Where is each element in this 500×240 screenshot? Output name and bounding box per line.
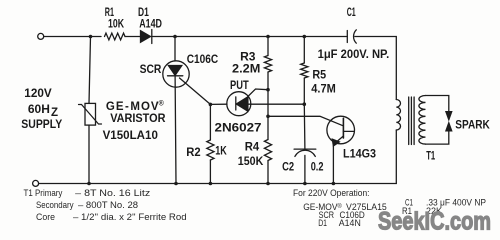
wire node to C2 — [303, 104, 306, 149]
wire SCR cathode lead — [174, 76, 177, 184]
svg-text:0.2: 0.2 — [311, 162, 324, 174]
wire C1 to corner — [355, 37, 397, 100]
node: SCR anode junction — [173, 35, 177, 39]
resistor R4 — [264, 140, 271, 161]
svg-text:1μF 200V. NP.: 1μF 200V. NP. — [318, 49, 390, 61]
node: L14G3 emitter bottom junction — [332, 182, 336, 186]
wire R5 top lead — [303, 37, 305, 64]
svg-text:Secondary: Secondary — [36, 200, 74, 210]
svg-text:120V: 120V — [24, 88, 52, 100]
node: R3 top junction — [266, 35, 270, 39]
svg-text:Z: Z — [51, 107, 58, 119]
svg-text:R5: R5 — [312, 70, 326, 82]
svg-text:SCR: SCR — [140, 64, 162, 76]
resistor R2 — [207, 140, 214, 160]
svg-text:For 220V Operation:: For 220V Operation: — [293, 188, 370, 198]
svg-text:R2: R2 — [186, 147, 200, 159]
resistor R5 — [301, 63, 308, 78]
svg-text:– 1/2'' dia. x 2'' Ferrite Rod: – 1/2'' dia. x 2'' Ferrite Rod — [73, 212, 187, 222]
wire PUT left lead — [210, 103, 227, 105]
svg-text:– 800T No. 28: – 800T No. 28 — [78, 200, 138, 210]
node: SCR gate / R2 / PUT junction — [209, 103, 213, 107]
node: C2 bottom junction — [303, 182, 307, 186]
svg-text:V150LA10: V150LA10 — [103, 130, 158, 142]
wire R3 top lead — [267, 37, 269, 56]
wire secondary top lead — [426, 96, 449, 113]
resistor R1 — [105, 33, 126, 40]
wire R1 to D1 — [125, 36, 141, 38]
svg-text:Core: Core — [36, 212, 55, 222]
wire R5 to anode node — [303, 78, 305, 104]
svg-text:GE-MOV®: GE-MOV® — [106, 100, 165, 114]
wire top rail left — [44, 36, 101, 38]
node: R5/C1 top junction — [303, 35, 307, 39]
capacitor C2 — [294, 148, 316, 150]
wire base line — [268, 116, 343, 126]
wire R3 bottom / node column — [267, 72, 269, 140]
wire varistor top lead — [89, 37, 91, 104]
wire R4 bottom lead — [267, 161, 269, 184]
svg-text:4.7M: 4.7M — [311, 83, 336, 95]
wire PUT gate — [248, 89, 268, 97]
svg-text:2.2M: 2.2M — [232, 63, 260, 75]
transformer core — [408, 97, 410, 145]
wire emitter lead — [332, 146, 334, 184]
transistor L14G3 — [327, 116, 355, 144]
spark gap upper arrow — [446, 112, 452, 120]
svg-text:L14G3: L14G3 — [343, 148, 376, 160]
terminal top-left — [38, 33, 44, 39]
svg-text:10K: 10K — [108, 18, 125, 30]
svg-text:PUT: PUT — [230, 80, 249, 92]
wire C2 bottom lead — [304, 155, 306, 183]
wire PUT anode lead — [248, 103, 304, 105]
PUT 2N6027 — [227, 92, 251, 116]
node: base line junction — [266, 115, 270, 119]
svg-text:T1: T1 — [426, 150, 435, 162]
node: varistor bottom junction — [87, 182, 91, 186]
wire SCR gate — [180, 78, 211, 104]
svg-text:D1: D1 — [318, 218, 327, 228]
svg-text:A14D: A14D — [139, 18, 162, 30]
svg-text:150K: 150K — [238, 156, 264, 168]
svg-text:60H: 60H — [28, 104, 50, 116]
svg-text:C1: C1 — [347, 7, 356, 19]
spark gap lower arrow — [446, 123, 452, 131]
node: R4 bottom junction — [266, 182, 270, 186]
wire R2 bottom lead — [209, 160, 211, 184]
resistor R3 — [264, 56, 271, 73]
node: SCR cathode bottom junction — [174, 182, 178, 186]
svg-text:1K: 1K — [215, 146, 227, 158]
svg-text:R4: R4 — [245, 142, 260, 154]
svg-text:SeekIC.com: SeekIC.com — [378, 208, 491, 236]
svg-text:A14N: A14N — [339, 218, 361, 228]
node: R3/PUT gate junction — [266, 88, 270, 92]
svg-text:SPARK: SPARK — [455, 120, 490, 132]
transformer T1 primary — [396, 100, 400, 130]
svg-text:R3: R3 — [240, 51, 255, 63]
wire R2 top lead — [209, 104, 211, 140]
terminal bottom-left — [33, 180, 39, 186]
node: PUT anode / R5 junction — [303, 102, 307, 106]
transformer T1 secondary — [419, 96, 426, 145]
wire SCR anode lead — [174, 37, 176, 62]
SCR C106C — [163, 61, 189, 87]
svg-text:T1 Primary: T1 Primary — [24, 188, 63, 198]
wire bottom rail — [39, 183, 397, 185]
svg-text:C106C: C106C — [187, 54, 219, 66]
varistor V150LA10 body — [85, 103, 96, 125]
svg-text:C2: C2 — [282, 162, 294, 174]
wire primary bottom to rail — [395, 130, 397, 184]
diode D1 — [141, 31, 151, 43]
wire varistor bottom lead — [88, 125, 90, 183]
svg-text:– 8T No. 16 Litz: – 8T No. 16 Litz — [75, 188, 151, 198]
wire secondary bottom lead — [426, 131, 449, 145]
capacitor C1 — [346, 31, 348, 43]
node: R2 bottom junction — [209, 182, 213, 186]
svg-text:SUPPLY: SUPPLY — [21, 119, 62, 131]
svg-text:2N6027: 2N6027 — [215, 123, 262, 135]
node: supply/varistor junction — [89, 35, 93, 39]
wire D1 to C1 — [152, 36, 347, 38]
svg-text:VARISTOR: VARISTOR — [110, 113, 166, 125]
